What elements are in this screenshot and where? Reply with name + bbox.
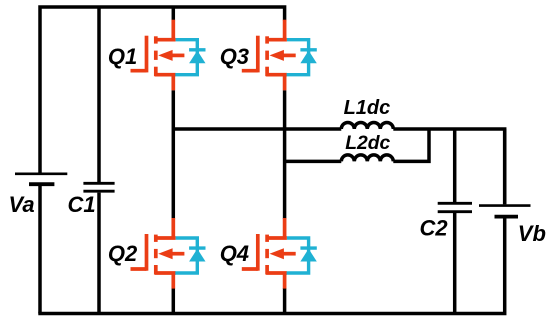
svg-text:Va: Va (9, 192, 35, 217)
svg-text:L1dc: L1dc (344, 97, 391, 119)
svg-text:Q4: Q4 (220, 241, 249, 266)
svg-text:Q3: Q3 (220, 44, 249, 69)
svg-text:Q2: Q2 (108, 241, 138, 266)
svg-text:Q1: Q1 (108, 44, 137, 69)
svg-text:C1: C1 (68, 192, 96, 217)
svg-text:L2dc: L2dc (345, 133, 390, 154)
svg-text:Vb: Vb (518, 221, 546, 246)
svg-text:C2: C2 (420, 216, 449, 241)
